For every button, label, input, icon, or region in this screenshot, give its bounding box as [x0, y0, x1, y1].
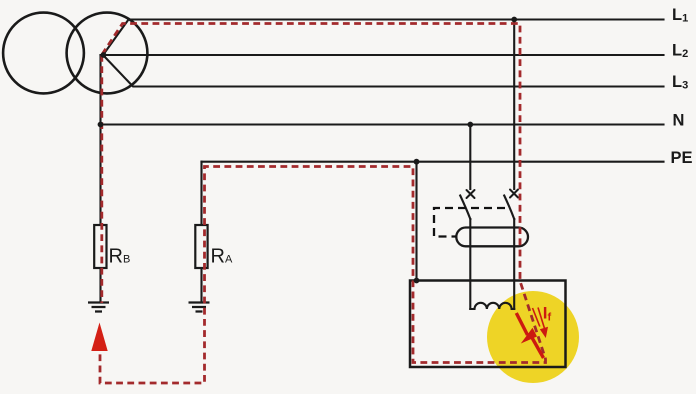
- svg-text:PE: PE: [671, 149, 693, 167]
- svg-text:N: N: [673, 112, 685, 130]
